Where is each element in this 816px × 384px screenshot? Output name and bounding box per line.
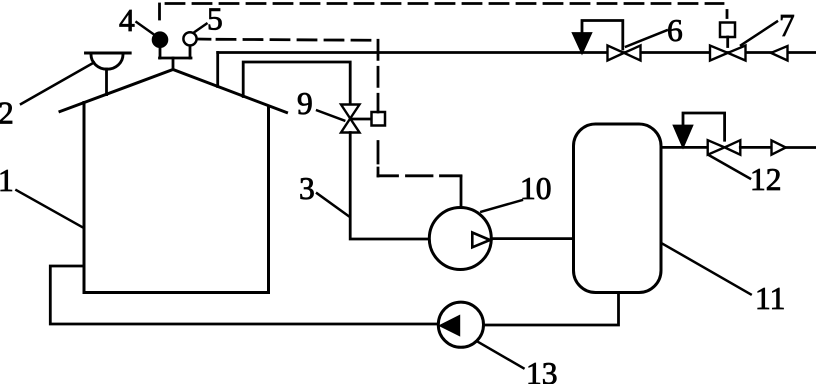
vent funnel 2 top bar <box>86 52 131 55</box>
pump 10 <box>429 208 491 270</box>
control line switch 5 dashed horizontal <box>217 39 378 40</box>
leader 11 <box>662 243 751 294</box>
branch loop to valve 9 <box>243 62 350 105</box>
tank 1 roof <box>60 70 287 113</box>
pump 13 <box>438 302 483 347</box>
valve 7 <box>710 46 746 61</box>
leader 12 <box>710 156 751 179</box>
level switch 5 stem <box>189 46 192 59</box>
leader 7 <box>741 22 777 46</box>
pipe pump 10 to vessel <box>491 237 573 240</box>
leader 6 <box>626 30 667 46</box>
control line dashed to pump 10 <box>378 174 461 177</box>
roof peak stem <box>172 58 175 70</box>
svg-text:13: 13 <box>526 356 558 384</box>
valve 6 actuator bracket <box>582 21 623 50</box>
control line dash corner at switch 4 <box>158 4 161 19</box>
valve 12 actuator bracket <box>683 113 725 140</box>
vent header line <box>218 51 816 54</box>
vent pipe from roof <box>216 53 219 87</box>
valve 6 <box>608 46 641 61</box>
leader 9 <box>317 110 344 120</box>
flow arrow left on header <box>771 46 788 61</box>
actuator square 7 stub <box>726 37 729 47</box>
flow arrow right <box>772 140 786 154</box>
pump 10 inlet stub <box>460 177 463 208</box>
control line from switch 5 stub <box>197 38 210 41</box>
line valve 12 to arrow <box>740 146 771 149</box>
level switch 5 <box>183 32 196 45</box>
svg-text:9: 9 <box>297 86 313 121</box>
pump 10 impeller <box>472 233 490 248</box>
control line top dashed <box>166 2 723 5</box>
valve 12 actuator arrow <box>674 126 691 146</box>
valve 12 <box>708 140 741 155</box>
vent funnel 2 stem <box>105 69 108 95</box>
control line dashed vertical to square 9 <box>377 40 380 112</box>
actuator square 9 <box>372 112 386 126</box>
leader 4 <box>137 22 155 34</box>
actuator square 7 <box>720 23 735 38</box>
valve 9 <box>341 105 360 133</box>
svg-text:6: 6 <box>667 13 683 48</box>
leader 1 <box>16 190 83 228</box>
svg-text:2: 2 <box>0 96 14 131</box>
vessel vent line to valve 12 <box>661 146 708 149</box>
level switch 4 <box>153 33 167 47</box>
level switch 4 stem <box>159 46 162 58</box>
svg-text:10: 10 <box>520 171 552 206</box>
tank drain side pipe <box>50 266 438 324</box>
leader 2 <box>21 63 94 105</box>
svg-text:1: 1 <box>0 163 14 198</box>
outlet line right <box>786 146 816 149</box>
pump 13 impeller <box>441 317 459 335</box>
pipe 3 <box>350 133 429 240</box>
valve 9 actuator stub <box>350 118 371 121</box>
svg-text:12: 12 <box>750 162 782 197</box>
svg-text:5: 5 <box>207 2 223 37</box>
return line to vessel bottom <box>484 293 619 326</box>
valve 6 actuator arrow <box>574 34 591 53</box>
tank 1 body <box>84 103 269 293</box>
svg-text:7: 7 <box>779 8 795 43</box>
svg-text:11: 11 <box>755 281 785 316</box>
vessel 11 <box>574 124 662 293</box>
leader 5 <box>195 24 207 32</box>
vent funnel 2 bowl <box>91 55 123 70</box>
leader 10 <box>481 200 522 212</box>
svg-text:3: 3 <box>299 171 315 206</box>
control line dash above square 7 <box>726 11 729 18</box>
svg-text:4: 4 <box>119 3 135 38</box>
leader 3 <box>317 193 349 216</box>
control line dashed below square 9 <box>377 142 380 177</box>
leader 13 <box>478 342 524 368</box>
instrument bridge bar <box>160 57 192 60</box>
